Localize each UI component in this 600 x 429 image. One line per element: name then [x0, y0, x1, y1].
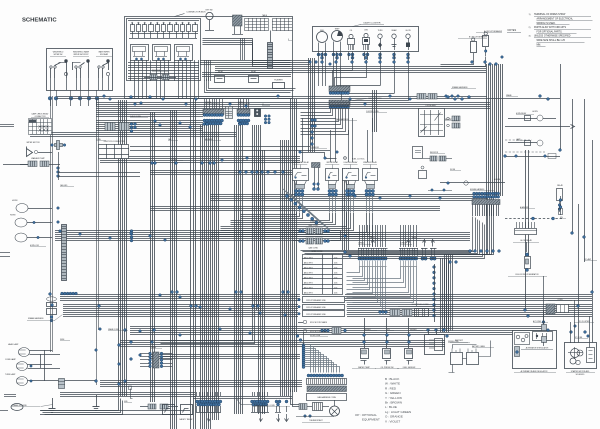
svg-text:ABCD EFG: ABCD EFG	[304, 292, 313, 295]
switch panel box	[47, 49, 113, 91]
svg-text:SCHEMATIC: SCHEMATIC	[22, 18, 57, 24]
svg-text:0.85: 0.85	[334, 293, 337, 295]
wiper switch S1	[50, 68, 52, 78]
svg-text:Lg : LIGHT GREEN: Lg : LIGHT GREEN	[385, 410, 411, 414]
horn ellipse 2	[15, 218, 27, 227]
combination lamp LH	[17, 362, 28, 371]
svg-text:KEY SW: KEY SW	[206, 10, 213, 12]
bottom connector ticks right	[252, 406, 254, 412]
svg-text:CLUSTER CONN: CLUSTER CONN	[366, 111, 379, 113]
svg-text:CHECK CONN: CHECK CONN	[130, 116, 142, 118]
bank B cap	[399, 248, 418, 250]
vertical bundle x150	[150, 112, 152, 402]
main right trunk x487	[486, 64, 488, 196]
right cluster lines sweep	[301, 217, 473, 251]
circuit breaker CB2	[483, 36, 489, 47]
svg-text:CONN C: CONN C	[358, 243, 365, 245]
panel internal horizontal bus	[128, 62, 199, 64]
alternator feed connectors	[542, 325, 547, 331]
svg-text:FOR OPTIONAL PARTS.: FOR OPTIONAL PARTS.	[537, 30, 563, 33]
CN1 feed wires from box	[204, 99, 206, 109]
connector pair row 2	[299, 240, 302, 243]
horizontal bundle y231	[55, 230, 300, 232]
bottom left ground ellipse	[11, 404, 23, 411]
right dashed lines	[505, 139, 532, 141]
vertical bundle x281	[280, 140, 282, 396]
svg-text:CONNECTOR BOX: CONNECTOR BOX	[186, 12, 206, 14]
svg-text:FUEL FILTER W SEPARATOR: FUEL FILTER W SEPARATOR	[515, 273, 539, 276]
svg-text:W : WHITE: W : WHITE	[385, 382, 400, 386]
bottom connector dots right	[251, 400, 254, 403]
junction table T2	[99, 145, 129, 159]
vertical bundle x119	[118, 100, 120, 396]
svg-text:0.85: 0.85	[334, 258, 337, 260]
key switch symbol in box	[206, 12, 213, 19]
thermostart bottom dots	[304, 415, 307, 418]
relay box WIPER RELAY	[326, 169, 339, 181]
extra left bundle y110	[96, 110, 203, 112]
right mid wire with dots	[428, 190, 452, 192]
bank D lines and dots	[431, 248, 433, 256]
svg-text:RESISTOR: RESISTOR	[430, 152, 439, 154]
alternator mid label	[521, 349, 553, 351]
ignition switch symbol	[233, 15, 243, 26]
svg-text:0.85: 0.85	[334, 283, 337, 285]
left trunk 2	[96, 99, 98, 385]
svg-text:TO CLUSTER: TO CLUSTER	[579, 321, 590, 323]
left multipin connector body	[153, 352, 159, 368]
staircase blue dots	[285, 194, 288, 197]
svg-text:0.85: 0.85	[334, 263, 337, 265]
nested corner routes center	[161, 311, 253, 341]
vertical bundle x253	[252, 125, 254, 310]
room lamp ellipse	[16, 204, 28, 213]
left connector pair mid	[105, 123, 115, 131]
svg-text:3): 3)	[529, 36, 531, 38]
nested corner routes lower left	[41, 397, 119, 411]
fan dot row	[307, 374, 310, 377]
fan comb band	[307, 379, 347, 385]
relay box TURN SIGNAL RELAY	[293, 169, 309, 181]
horizontal line y147	[130, 146, 310, 148]
svg-text:NOTES: NOTES	[508, 29, 517, 32]
svg-text:0.85: 0.85	[334, 278, 337, 280]
relay K1	[131, 45, 149, 61]
right dashed horizontal y218	[505, 218, 562, 220]
lamp feed wires	[44, 350, 46, 381]
left multipin dots	[149, 352, 152, 355]
capacitor component between relays	[312, 163, 321, 168]
horizontal bundle y355	[150, 354, 300, 356]
vertical bundle x191	[190, 99, 192, 429]
left ladder connector strip	[62, 225, 67, 281]
fuse bus wiring	[128, 20, 199, 22]
horizontal bundle y68	[215, 66, 486, 68]
gauge sender drops	[318, 60, 320, 86]
cluster long drops	[352, 60, 354, 70]
svg-text:CAB CONN: CAB CONN	[308, 224, 318, 227]
left edge stub wires	[0, 124, 14, 126]
vertical bundle x260	[258, 150, 260, 414]
glow plug connector right	[379, 311, 382, 314]
svg-text:WIRE SIZE SHALL BE 1.25: WIRE SIZE SHALL BE 1.25	[537, 39, 566, 42]
right cluster drop lines	[472, 205, 474, 217]
vertical bundle x291	[290, 99, 292, 392]
relay TURN SIGNAL RELAY pin dots	[294, 189, 297, 192]
left lower dot column	[130, 230, 133, 233]
svg-text:1): 1)	[529, 14, 531, 16]
svg-text:THERMOSTART: THERMOSTART	[309, 419, 323, 422]
svg-text:ARRANGEMENT OF ELECTRICAL: ARRANGEMENT OF ELECTRICAL	[537, 18, 574, 21]
bank A up arrow	[372, 241, 374, 247]
lamp holder H1	[349, 34, 353, 38]
small sensor right mid	[419, 171, 427, 179]
head lamp LH	[19, 348, 30, 357]
svg-text:LIGHTING RELAY: LIGHTING RELAY	[344, 161, 359, 164]
right cluster hatch band	[472, 200, 500, 205]
svg-text:CIRCUIT BREAKER LINE: CIRCUIT BREAKER LINE	[306, 313, 326, 316]
left multipin feed wires	[140, 353, 149, 355]
box internal verticals right	[204, 60, 206, 81]
svg-text:FUEL SENDER: FUEL SENDER	[403, 367, 416, 369]
svg-text:TURN SIGNAL RELAY: TURN SIGNAL RELAY	[292, 161, 310, 164]
fan connector dot column	[302, 344, 305, 347]
horizontal bundle y208	[150, 206, 440, 208]
svg-text:O : ORANGE: O : ORANGE	[385, 415, 403, 419]
alternator body	[533, 332, 553, 341]
ladder block right of CN1	[226, 107, 233, 119]
left inline connectors on trunk lines	[452, 116, 460, 121]
starter feed dots	[570, 331, 573, 334]
bottom connector ticks left	[196, 406, 198, 412]
relay STARTER RELAY drop wires	[366, 196, 368, 212]
svg-text:WIPER RELAY: WIPER RELAY	[327, 161, 339, 164]
glow relay ladder block	[515, 229, 537, 235]
svg-text:OIL PRESS SW: OIL PRESS SW	[381, 367, 394, 369]
svg-text:Y : YELLOW: Y : YELLOW	[385, 396, 402, 400]
panel exit verticals to connectors	[134, 81, 136, 99]
breaker feed wires	[441, 63, 474, 65]
starter relay rect	[587, 348, 595, 363]
svg-text:V : VIOLET: V : VIOLET	[385, 419, 400, 423]
svg-text:HORN: HORN	[532, 111, 538, 113]
horizontal bundle y305 right	[347, 304, 592, 306]
connector box table B	[273, 19, 293, 31]
horizontal bundle y342	[120, 340, 445, 342]
vertical bundle x345 mid	[342, 168, 344, 250]
relay TURN SIGNAL RELAY drop wires	[296, 196, 298, 212]
svg-text:CONN: CONN	[558, 299, 564, 301]
right small circuit y155	[505, 156, 560, 158]
wiper motor symbol	[27, 147, 33, 157]
svg-text:G : GREEN: G : GREEN	[385, 391, 401, 395]
multipin connector CN1 hatch	[203, 109, 224, 115]
svg-text:TERMINAL OF WIRES SHOW: TERMINAL OF WIRES SHOW	[534, 13, 566, 16]
svg-text:J1 CONN: J1 CONN	[170, 159, 178, 161]
svg-text:ABCD EFG: ABCD EFG	[304, 262, 313, 265]
dot pair columns right of CN2	[264, 115, 267, 118]
svg-text:SW REAR: SW REAR	[100, 53, 109, 56]
right vertical component chain x560	[560, 196, 562, 215]
fusible link box	[425, 335, 445, 355]
svg-text:CONN D: CONN D	[400, 243, 407, 245]
fan nested corner wires	[305, 345, 311, 373]
CN2 hatch	[237, 109, 250, 115]
svg-text:B : BLACK: B : BLACK	[385, 377, 399, 381]
svg-text:RESISTOR: RESISTOR	[152, 70, 161, 72]
svg-text:PARTS ALSO WITH CIRCUITS: PARTS ALSO WITH CIRCUITS	[534, 26, 567, 29]
washer pump assembly	[28, 161, 37, 167]
backup alarm line	[440, 182, 505, 184]
svg-text:GLOW: GLOW	[405, 30, 411, 32]
relay LIGHTING RELAY funnel	[346, 181, 356, 185]
svg-text:ALARM: ALARM	[494, 178, 501, 181]
horizontal lines y96	[56, 96, 487, 98]
diagonal staircase bundle	[283, 189, 321, 223]
bank A feed verticals above	[359, 225, 361, 247]
box inner frame bottom	[128, 96, 290, 98]
starter motor circles	[570, 358, 576, 364]
horizontal bundle y196	[210, 194, 487, 196]
right vertical x543	[543, 276, 545, 330]
water separator symbol	[526, 242, 528, 252]
svg-text:CIRCUIT BREAKER LINE: CIRCUIT BREAKER LINE	[306, 306, 326, 309]
cluster pin dots	[317, 53, 320, 56]
connector pair linking wires	[331, 231, 341, 241]
dash cluster box	[313, 27, 419, 52]
svg-text:J2: J2	[262, 104, 264, 106]
bank A dot row	[358, 257, 361, 260]
fan hatch band	[307, 386, 347, 392]
connector box table A	[245, 19, 269, 31]
bottom small group dots	[275, 400, 278, 403]
right trunk step to left	[445, 197, 487, 331]
svg-text:EQUIPMENT: EQUIPMENT	[362, 418, 380, 422]
battery B1	[451, 353, 463, 365]
S3 exit wires	[98, 78, 100, 90]
svg-text:COMB SW: COMB SW	[311, 147, 319, 149]
horizontal bundle y122 left connector feed	[96, 120, 203, 122]
bottom arrow right	[260, 414, 262, 421]
svg-text:Br : BROWN: Br : BROWN	[385, 401, 402, 405]
svg-text:WIPER MOTOR: WIPER MOTOR	[26, 142, 40, 144]
bank crossing lines	[346, 252, 471, 254]
svg-text:TURN LAMP: TURN LAMP	[5, 373, 16, 376]
vertical bundle x213	[212, 125, 214, 420]
svg-text:CONNECTOR: CONNECTOR	[35, 116, 47, 118]
fan label box	[307, 394, 347, 401]
trunk from banks down	[440, 258, 442, 332]
vertical bundle x375 upper	[372, 90, 374, 132]
svg-text:FUEL CUT SOL: FUEL CUT SOL	[352, 159, 365, 161]
battery ground	[449, 365, 455, 373]
svg-text:GLOW PLUG CONN: GLOW PLUG CONN	[412, 304, 429, 306]
flasher box	[273, 83, 285, 89]
svg-text:ABCD EFG: ABCD EFG	[304, 257, 313, 260]
circuit breaker CB1	[471, 42, 477, 53]
CN1 pin cluster	[203, 119, 206, 122]
dash harness stack upper	[329, 86, 350, 92]
svg-text:FUEL: FUEL	[320, 30, 324, 32]
svg-text:GLOW RELAY: GLOW RELAY	[520, 239, 533, 242]
fuse row	[131, 25, 135, 32]
svg-text:CONN E: CONN E	[150, 347, 156, 349]
S2 exit wires	[76, 78, 78, 90]
starter box	[565, 343, 597, 369]
svg-text:ST CONN: ST CONN	[575, 337, 583, 339]
right assembly y305	[546, 304, 555, 314]
relay output wires to panel bottom	[130, 60, 132, 81]
vertical bundle x236	[234, 125, 236, 414]
gauge G1 circle	[317, 32, 328, 43]
svg-text:2): 2)	[529, 27, 531, 29]
svg-text:ABCD EFG: ABCD EFG	[304, 267, 313, 270]
alternator terminal block	[515, 333, 530, 345]
box internal bus right	[202, 72, 291, 74]
relay box BL2	[181, 405, 193, 415]
CN2 band dots	[237, 114, 240, 117]
relay box BL1	[163, 405, 175, 415]
vertical bundle x172	[170, 110, 172, 429]
svg-text:DIODE ASSY: DIODE ASSY	[426, 104, 438, 107]
svg-text:GLOW CONN: GLOW CONN	[310, 335, 321, 337]
switch panel drops below dots	[50, 100, 52, 106]
svg-text:FUSIBLE LINK: FUSIBLE LINK	[448, 341, 460, 343]
svg-text:FUSE: FUSE	[60, 339, 64, 341]
horizontal bundle y292 left	[60, 294, 300, 296]
horn ellipse 3	[15, 233, 27, 242]
horizontal bundle y305 left	[63, 304, 298, 306]
relay TURN SIGNAL RELAY funnel	[295, 181, 307, 185]
bank B dot row	[399, 257, 402, 260]
barrel pair right of small box	[430, 156, 437, 161]
relay WIPER RELAY funnel	[329, 181, 337, 185]
thermostart motor circle	[330, 406, 340, 416]
chassis ground x52	[52, 398, 54, 408]
bank A cap	[358, 248, 388, 250]
battery wiring	[453, 345, 477, 349]
below stack fan	[301, 109, 331, 113]
svg-text:WIRE CODE: WIRE CODE	[312, 251, 324, 253]
nested corner big loop	[291, 389, 301, 405]
horizontal bundle y393	[60, 392, 195, 394]
CN2 pin cluster	[237, 119, 240, 122]
relay LIGHTING RELAY pin dots	[345, 189, 348, 192]
horizontal bundle y381	[100, 380, 302, 382]
right lower connectors y330	[321, 329, 324, 332]
chassis ground x96	[96, 395, 98, 407]
svg-text:JUNCTION CONNECTOR: JUNCTION CONNECTOR	[103, 141, 125, 143]
diode assembly box	[419, 109, 445, 137]
bank B tick labels	[400, 261, 402, 266]
cluster pin dots row2	[321, 56, 324, 59]
small box below diode	[413, 147, 423, 159]
oil pressure lamp	[537, 115, 543, 121]
junction dots on bus crossings	[103, 95, 106, 98]
relay LIGHTING RELAY drop wires	[346, 196, 348, 212]
small box x557	[557, 189, 563, 201]
bracket symbol	[131, 389, 133, 399]
cluster collect staircase	[333, 71, 353, 87]
relay drop collect to left	[241, 213, 297, 215]
svg-text:CONN B: CONN B	[238, 102, 244, 104]
svg-text:HORN: HORN	[12, 200, 18, 202]
svg-text:HEAD LAMP: HEAD LAMP	[8, 343, 19, 346]
svg-text:B CIRCUIT BREAKER: B CIRCUIT BREAKER	[469, 36, 488, 39]
svg-text:OP : OPTIONAL: OP : OPTIONAL	[355, 413, 377, 417]
svg-text:SENDER: SENDER	[410, 329, 417, 331]
rear wiper switch S3	[98, 68, 100, 78]
box internal routing right half	[203, 39, 291, 61]
svg-text:STARTER RELAY: STARTER RELAY	[363, 161, 377, 164]
svg-text:SOLENOID: SOLENOID	[576, 374, 586, 376]
mid-right inline connector pair	[417, 94, 426, 100]
fan left edge wires	[303, 332, 305, 345]
relay box STARTER RELAY	[363, 169, 378, 181]
horizontal bundle y62 box to cluster	[200, 60, 310, 62]
front lamp LH	[17, 377, 28, 386]
svg-text:R : RED: R : RED	[385, 386, 397, 390]
svg-text:CAB HARNESS CONN: CAB HARNESS CONN	[317, 396, 336, 399]
vertical bundle x310	[308, 58, 310, 152]
horizontal bundle y328	[130, 326, 545, 328]
svg-text:FRAME HARNESS: FRAME HARNESS	[28, 317, 44, 320]
relay STARTER RELAY pin dots	[365, 189, 368, 192]
svg-text:OIL: OIL	[350, 30, 353, 32]
svg-text:F: F	[288, 39, 289, 41]
relay WIPER RELAY pin dots	[328, 189, 331, 192]
legend symbol rows	[303, 320, 307, 324]
bank A tick labels	[359, 261, 361, 266]
relay STARTER RELAY funnel	[365, 181, 375, 185]
bottom bus feed verticals	[196, 392, 198, 396]
horizontal bottom lines	[40, 410, 190, 412]
svg-text:WIPER SW: WIPER SW	[54, 54, 63, 56]
bank B up arrow	[408, 241, 410, 247]
svg-text:WIPER SW FRONT: WIPER SW FRONT	[74, 54, 89, 56]
lamp holder H2	[364, 33, 368, 37]
svg-text:BEAM: BEAM	[392, 29, 397, 32]
connector pair row 1	[299, 230, 302, 233]
battery B2	[467, 353, 479, 365]
svg-text:CAB CONN: CAB CONN	[308, 247, 318, 250]
svg-text:ABCD EFG: ABCD EFG	[304, 282, 313, 285]
alternator box	[513, 331, 557, 369]
right lamp 2	[537, 140, 543, 146]
relay K3	[175, 45, 193, 61]
bottom small connector row	[148, 404, 156, 409]
svg-text:HORN: HORN	[10, 215, 16, 217]
left dots column below cross	[57, 167, 60, 170]
right dot column x434	[433, 266, 436, 269]
bank A vertical lines	[358, 248, 360, 256]
alternator regulator barrel	[515, 347, 520, 357]
right long line with arrow	[505, 126, 570, 128]
right connector cluster dots	[473, 192, 476, 195]
svg-text:DASH CLUSTER: DASH CLUSTER	[364, 22, 381, 25]
horizontal bundle y158	[100, 156, 300, 158]
bottom single pin	[285, 400, 288, 403]
switch panel junction dots	[48, 97, 52, 101]
svg-text:ABCD EFG: ABCD EFG	[304, 277, 313, 280]
thermostart assembly	[299, 404, 307, 410]
svg-text:0.85: 0.85	[334, 268, 337, 270]
svg-text:WASHER PUMP: WASHER PUMP	[31, 157, 45, 160]
horizontal bundle y103	[96, 102, 490, 104]
bank B vertical lines	[400, 248, 402, 256]
bottom connector dots left	[196, 400, 199, 403]
svg-text:J3: J3	[242, 159, 244, 161]
